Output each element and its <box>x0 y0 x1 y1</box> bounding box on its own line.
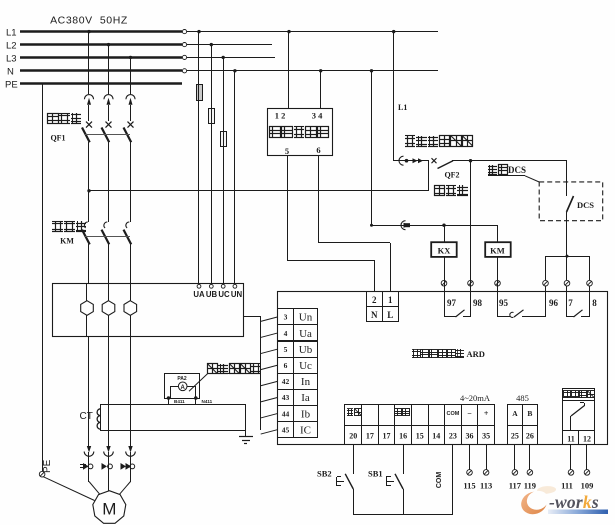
wire UN tap <box>233 69 236 283</box>
svg-text:43: 43 <box>282 393 290 402</box>
svg-text:5: 5 <box>284 345 288 354</box>
bus N <box>20 69 438 73</box>
current transformer CT bracket <box>101 404 246 406</box>
svg-text:1: 1 <box>388 295 393 305</box>
ARD voltage/current terminals 3 Un .. 45 IC <box>278 309 294 325</box>
wire to pin96 <box>545 256 547 280</box>
svg-text:ARD: ARD <box>467 349 485 359</box>
contactor KM pole 2 <box>102 222 110 284</box>
svg-text:KM: KM <box>60 237 74 246</box>
svg-text:+: + <box>484 409 489 418</box>
breaker QF2 contact <box>432 158 568 168</box>
hexagon contact 1 <box>81 301 94 316</box>
label 电动机保护器 ARD <box>412 351 420 353</box>
svg-text:25: 25 <box>511 431 519 440</box>
svg-text:KX: KX <box>438 245 452 255</box>
bus L2 <box>20 43 272 47</box>
anti-sag module box 抗晃电模块 <box>268 109 333 156</box>
svg-text:L1: L1 <box>6 27 17 38</box>
wire QF2 to QF1 junction <box>428 161 430 191</box>
svg-text:45: 45 <box>282 425 290 434</box>
wire module L1 feed <box>287 30 290 108</box>
svg-text:119: 119 <box>524 481 536 491</box>
svg-text:3 4: 3 4 <box>312 111 323 121</box>
circuit breaker QF1 pole 3 <box>124 122 134 222</box>
svg-text:Ia: Ia <box>301 392 310 404</box>
svg-text:36: 36 <box>466 431 474 440</box>
svg-text:6: 6 <box>284 361 288 370</box>
svg-text:−: − <box>467 409 472 418</box>
cable marks phase 2 <box>102 463 113 470</box>
node QF1 output junction <box>87 189 90 192</box>
svg-text:485: 485 <box>516 393 529 403</box>
cable marks phase 3 <box>121 463 135 470</box>
svg-text:IC: IC <box>300 424 311 436</box>
svg-text:CT: CT <box>80 411 93 422</box>
svg-text:20: 20 <box>349 431 357 440</box>
wire UB tap <box>210 43 213 283</box>
DCS dashed box <box>539 182 603 221</box>
current transformer drawer box <box>53 284 244 337</box>
svg-text:N: N <box>371 310 378 320</box>
svg-text:PE: PE <box>5 79 18 90</box>
label 抽屉试验位置 <box>405 138 415 140</box>
wire UA tap <box>197 30 200 283</box>
svg-text:113: 113 <box>480 481 492 491</box>
svg-text:Ub: Ub <box>299 344 313 356</box>
terminal circle UN <box>233 284 237 288</box>
bus L1 <box>20 30 438 34</box>
bus L3 <box>20 55 275 59</box>
circuit breaker QF1 pole 1 <box>82 122 92 222</box>
svg-text:DCS: DCS <box>577 200 594 210</box>
output terminal 113 <box>480 445 492 491</box>
circuit breaker QF1 pole 2 <box>102 122 112 222</box>
wire pin95 <box>497 280 499 292</box>
RS485 terminals A B 25 26 <box>508 405 523 426</box>
contactor coil KM <box>485 225 511 280</box>
svg-text:96: 96 <box>549 298 559 308</box>
bus PE <box>20 82 182 85</box>
svg-text:Ib: Ib <box>301 408 311 420</box>
svg-text:-works: -works <box>549 492 599 512</box>
svg-text:AC380V 50HZ: AC380V 50HZ <box>50 15 128 27</box>
svg-text:2: 2 <box>372 295 377 305</box>
label 断路器 QF1 <box>48 114 59 124</box>
svg-text:12: 12 <box>583 434 591 443</box>
svg-text:L2: L2 <box>6 40 17 51</box>
output terminal 109 <box>581 445 594 491</box>
svg-text:QF1: QF1 <box>50 134 65 143</box>
svg-text:115: 115 <box>463 481 475 491</box>
KM linkage bar <box>85 236 130 238</box>
wire pin20 to SB2 <box>353 445 355 474</box>
svg-text:14: 14 <box>432 431 440 440</box>
svg-text:M: M <box>102 500 116 519</box>
node KX tap <box>442 224 445 227</box>
start button SB1 <box>368 468 404 514</box>
svg-text:KM: KM <box>490 245 505 255</box>
svg-text:8: 8 <box>592 298 597 308</box>
cable marks phase 1 <box>80 463 93 470</box>
svg-text:SB2: SB2 <box>317 468 332 478</box>
svg-text:42: 42 <box>282 377 290 386</box>
svg-text:23: 23 <box>449 431 457 440</box>
svg-text:B: B <box>527 409 532 418</box>
wire pin16 to SB1 <box>403 445 405 474</box>
svg-text:109: 109 <box>581 481 594 491</box>
ammeter box PA <box>165 374 200 399</box>
wire phase 1 to motor <box>84 336 94 482</box>
ARD contact 7-8 <box>567 292 598 317</box>
relay coil KX <box>431 225 457 280</box>
ARD bottom terminal strip 20 17 17 16 15 14 23 36 35 <box>345 405 362 426</box>
label 来自DCS <box>488 166 497 168</box>
wire 96 into box <box>545 286 547 292</box>
svg-text:1 2: 1 2 <box>275 111 286 121</box>
hexagon contact 3 <box>124 301 137 316</box>
svg-text:4: 4 <box>284 329 288 338</box>
svg-text:UC: UC <box>218 290 230 299</box>
output terminal 119 <box>524 445 536 491</box>
wire to pin8 <box>589 256 591 280</box>
svg-text:QF2: QF2 <box>444 171 459 180</box>
svg-text:Ua: Ua <box>299 328 312 340</box>
wire 8 into box <box>589 286 591 292</box>
wire phase 3 to motor <box>126 336 136 482</box>
svg-text:35: 35 <box>482 431 490 440</box>
svg-text:A: A <box>181 385 186 391</box>
svg-text:N: N <box>7 67 14 78</box>
svg-text:15: 15 <box>416 431 424 440</box>
label 现场操作柱 <box>208 364 218 374</box>
output terminal 115 <box>463 445 475 491</box>
wire to pin7 <box>566 256 568 280</box>
svg-text:95: 95 <box>499 298 509 308</box>
svg-text:16: 16 <box>399 431 407 440</box>
svg-text:In: In <box>301 376 311 388</box>
wire COM drop <box>452 445 454 514</box>
output terminal 117 <box>509 445 522 491</box>
wire PE drop <box>39 83 94 501</box>
wire phase 2 through box <box>108 284 110 301</box>
svg-text:98: 98 <box>473 298 483 308</box>
svg-text:B411: B411 <box>174 399 185 404</box>
drawout connector QF2 <box>394 156 429 165</box>
svg-text:97: 97 <box>447 298 457 308</box>
svg-text:N411: N411 <box>202 399 213 404</box>
drawout connector phase 1 (top) <box>84 30 93 121</box>
hexagon contact 2 <box>102 301 115 316</box>
fuse FU1 <box>197 85 203 101</box>
terminal circle UC <box>221 284 225 288</box>
terminal circle 98 <box>468 280 474 286</box>
svg-text:L1: L1 <box>398 103 407 112</box>
motor protector box ARD <box>278 292 608 445</box>
terminal circle 97 <box>441 280 447 286</box>
terminal circle UB <box>209 284 213 288</box>
svg-text:7: 7 <box>568 298 573 308</box>
wire N control drop <box>370 69 373 227</box>
svg-text:111: 111 <box>561 481 573 491</box>
svg-text:SB1: SB1 <box>368 468 383 478</box>
wire control rail y225 <box>372 225 498 227</box>
label 接触器 KM <box>52 223 63 225</box>
wire phase 2 to motor <box>104 336 114 482</box>
wire button common rail <box>353 514 453 516</box>
svg-text:11: 11 <box>567 434 575 443</box>
ARD contact 95-96 <box>498 292 559 317</box>
wire module pin6 to ARD pin1 <box>318 156 391 292</box>
terminal circle 95 <box>495 280 501 286</box>
svg-text:PA2: PA2 <box>177 376 187 382</box>
svg-text:PE: PE <box>42 459 53 473</box>
pins 2 1 N L cells <box>367 292 383 307</box>
ground symbol <box>239 436 253 438</box>
wire phase 3 through box <box>130 284 132 301</box>
fuse FU2 <box>209 108 215 124</box>
DCS switch contact <box>567 161 595 256</box>
svg-text:COM: COM <box>446 411 459 417</box>
node pin98 tap <box>469 159 472 162</box>
trunk cable to terminals <box>244 316 261 318</box>
wire DCS split rail <box>546 255 590 258</box>
svg-text:UA: UA <box>193 290 205 299</box>
svg-text:117: 117 <box>509 481 522 491</box>
svg-text:17: 17 <box>366 431 374 440</box>
svg-text:5: 5 <box>285 146 289 156</box>
svg-text:6: 6 <box>316 145 320 155</box>
terminal circle 7 <box>564 280 570 286</box>
svg-text:26: 26 <box>526 431 534 440</box>
wire pin98 <box>470 161 472 292</box>
wire control feed y190 <box>89 190 429 192</box>
svg-text:4~20mA: 4~20mA <box>460 393 491 403</box>
wire module pin5 to ARD pin2 <box>287 156 375 292</box>
protection action block 保护动作 11 12 <box>563 389 595 445</box>
wire phase 1 through box <box>86 284 88 301</box>
drawout connector phase 2 (top) <box>104 43 113 121</box>
drawout connector phase 3 (top) <box>126 56 135 121</box>
wire UC tap <box>222 56 225 283</box>
output terminal 111 <box>561 445 574 491</box>
contactor KM pole 3 <box>124 222 132 284</box>
svg-text:L: L <box>387 310 393 320</box>
fuse FU3 <box>221 131 227 147</box>
svg-text:3: 3 <box>284 313 288 322</box>
terminal circle 96 <box>543 280 549 286</box>
motor M <box>89 482 100 495</box>
terminal circle UA <box>197 284 201 288</box>
contactor KM pole 1 <box>82 222 90 284</box>
terminal circle 8 <box>587 280 593 286</box>
svg-text:L3: L3 <box>6 53 17 64</box>
svg-text:Un: Un <box>299 312 313 324</box>
stop button SB2 <box>317 468 354 514</box>
QF1 linkage bar <box>85 134 130 136</box>
drawout connector on control rail <box>401 221 411 230</box>
ARD contact 97-98 <box>444 292 483 317</box>
svg-text:44: 44 <box>282 409 290 418</box>
wire pin97 <box>444 280 446 292</box>
svg-text:A: A <box>512 409 518 418</box>
wire L1 QF2 drop <box>392 30 395 161</box>
svg-text:COM: COM <box>436 472 443 489</box>
svg-text:UB: UB <box>206 290 218 299</box>
wire module N feed <box>319 69 322 108</box>
wire 7 into box <box>566 286 568 292</box>
svg-text:UN: UN <box>231 290 243 299</box>
svg-text:17: 17 <box>383 431 391 440</box>
svg-text:Uc: Uc <box>299 360 312 372</box>
svg-text:DCS: DCS <box>508 165 526 175</box>
